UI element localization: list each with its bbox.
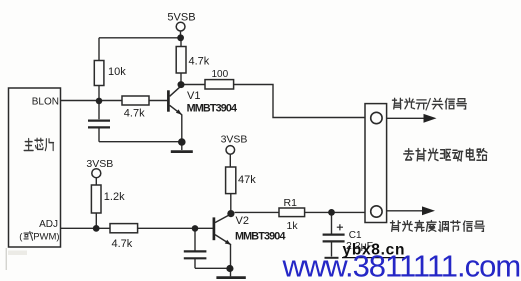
svg-text:www.3811111.com: www.3811111.com <box>282 249 521 281</box>
